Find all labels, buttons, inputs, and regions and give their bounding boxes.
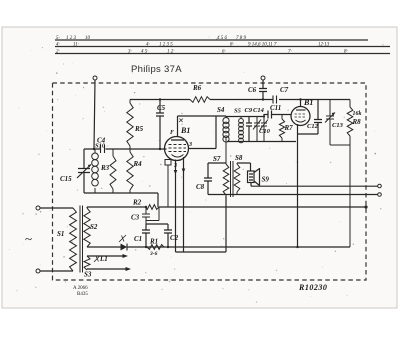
terminal mains 1 xyxy=(36,206,40,210)
resistor R2 xyxy=(145,205,159,210)
svg-text:C14: C14 xyxy=(253,107,265,114)
mains core xyxy=(80,206,83,273)
svg-text:3-6: 3-6 xyxy=(149,251,158,257)
svg-text:7 8 9: 7 8 9 xyxy=(236,36,247,41)
svg-text:R5: R5 xyxy=(134,125,144,133)
svg-text:C12: C12 xyxy=(307,123,319,130)
capacitor C8 xyxy=(204,163,212,195)
junction antenna-grid xyxy=(93,148,95,150)
capacitor C9 xyxy=(246,117,252,142)
wire tuned bottom xyxy=(84,193,158,207)
svg-text:S8: S8 xyxy=(235,154,243,162)
coil S8 secondary xyxy=(234,163,240,195)
svg-text:C8: C8 xyxy=(196,183,205,191)
svg-text:4 5·: 4 5· xyxy=(141,50,149,55)
svg-text:R6: R6 xyxy=(192,84,202,92)
svg-text:R1: R1 xyxy=(149,238,158,246)
resistor R7 xyxy=(279,115,284,142)
svg-text:S3: S3 xyxy=(84,271,92,279)
svg-text:3·: 3· xyxy=(128,50,132,55)
wire lamp line 1 xyxy=(87,255,123,257)
svg-text:1 2·: 1 2· xyxy=(167,50,175,55)
junction IF top xyxy=(263,115,265,117)
svg-text:C10: C10 xyxy=(259,128,271,135)
svg-text:S5: S5 xyxy=(234,108,242,115)
tube U2 cathode lead xyxy=(297,124,299,247)
svg-text:R10230: R10230 xyxy=(298,283,327,292)
wire mains top xyxy=(40,207,73,209)
tube U1 screen wire xyxy=(189,116,216,149)
cable run line 2 xyxy=(55,53,390,55)
svg-text:S10: S10 xyxy=(95,143,106,150)
wire IF bottom xyxy=(227,141,296,143)
tube U2 top lead xyxy=(300,100,302,108)
capacitor C2 xyxy=(164,230,172,247)
svg-text:11·: 11· xyxy=(73,43,79,48)
wire HT rail xyxy=(130,99,350,101)
svg-text:S9: S9 xyxy=(262,176,270,184)
junction C5-grid xyxy=(159,148,161,150)
tube U2 grids xyxy=(295,114,307,117)
tube U1 lead arrows xyxy=(174,169,186,175)
cable run line 4 xyxy=(55,46,390,48)
svg-text:C15: C15 xyxy=(60,175,72,183)
tube U2 cathode xyxy=(296,120,306,122)
capacitor C11 xyxy=(264,111,292,119)
svg-text:Philips 37A: Philips 37A xyxy=(131,64,182,75)
coil S3 heater xyxy=(84,256,90,270)
coil S10 xyxy=(92,149,99,193)
svg-text:C9: C9 xyxy=(245,107,253,114)
chassis dashed border xyxy=(53,83,367,280)
speaker S9 xyxy=(237,163,260,186)
wire mains bottom xyxy=(40,270,73,272)
junction rail-U2 xyxy=(299,98,301,100)
tube U2 plate xyxy=(296,109,306,111)
svg-text:R4: R4 xyxy=(133,160,143,168)
junction border dot xyxy=(364,205,367,208)
tube U1 cathode xyxy=(172,155,184,158)
tube U1 envelope xyxy=(165,137,189,161)
capacitor C5 xyxy=(156,100,164,150)
capacitor C12 xyxy=(298,100,323,135)
capacitor C13 trimmer xyxy=(325,100,350,146)
svg-text:3: 3 xyxy=(188,142,192,148)
svg-text:B1: B1 xyxy=(303,98,313,107)
wire output line xyxy=(251,185,378,187)
cable run numbers row 4 xyxy=(56,43,330,48)
svg-text:~: ~ xyxy=(25,231,32,246)
svg-text:R8: R8 xyxy=(352,118,362,126)
junction R2 left xyxy=(145,206,147,208)
svg-text:S4: S4 xyxy=(217,106,225,114)
terminal output 1 xyxy=(378,184,382,188)
svg-text:R3: R3 xyxy=(100,164,110,172)
svg-text:16k: 16k xyxy=(353,111,362,117)
junction S2 top xyxy=(86,207,88,208)
svg-text:C1: C1 xyxy=(134,235,142,243)
svg-text:8·: 8· xyxy=(344,50,348,55)
cable run line 5 xyxy=(55,39,368,41)
svg-text:A 2066: A 2066 xyxy=(73,286,88,291)
transformer core xyxy=(231,161,234,197)
svg-text:C2: C2 xyxy=(170,234,179,242)
tube U1 cathode leads xyxy=(176,157,184,252)
svg-text:1 2 3: 1 2 3 xyxy=(66,36,77,41)
svg-text:C6: C6 xyxy=(248,86,257,94)
coil S4 xyxy=(223,116,229,163)
svg-text:4 5 6: 4 5 6 xyxy=(217,36,228,41)
lamp L1 xyxy=(94,256,100,263)
capacitor C4 xyxy=(101,145,105,153)
svg-text:C11: C11 xyxy=(270,104,281,112)
svg-text:S2: S2 xyxy=(90,223,98,231)
terminal mains 2 xyxy=(36,269,40,273)
svg-text:10: 10 xyxy=(85,36,91,41)
resistor R8 xyxy=(347,100,353,248)
junction rail-C6 xyxy=(262,98,264,100)
svg-text:L1: L1 xyxy=(99,255,108,263)
svg-text:1 2 3 5: 1 2 3 5 xyxy=(159,43,173,48)
wire main rail 207 xyxy=(87,206,366,208)
svg-text:12·13: 12·13 xyxy=(318,43,330,48)
svg-text:9 14,6 10,11 7: 9 14,6 10,11 7 xyxy=(248,43,277,48)
resistor R3 xyxy=(110,149,116,193)
svg-text:3: 3 xyxy=(173,163,177,169)
tube U2 envelope xyxy=(291,107,310,126)
coil S2 secondary xyxy=(84,208,90,247)
svg-text:R2: R2 xyxy=(132,199,142,207)
rectifier diode xyxy=(121,244,128,251)
wire grid line xyxy=(84,148,167,150)
wire antenna down xyxy=(94,80,95,149)
wire S7 top xyxy=(208,162,226,164)
coil S7 primary xyxy=(223,163,229,252)
wire heater line xyxy=(176,196,227,252)
wire IF top xyxy=(226,116,264,118)
svg-text:5·: 5· xyxy=(56,36,60,41)
terminal output 2 xyxy=(378,193,382,197)
tube U1 bias box xyxy=(165,160,171,166)
svg-text:8·: 8· xyxy=(230,43,234,48)
capacitor C14 trimmer xyxy=(253,117,261,142)
junction C1 bottom xyxy=(145,246,147,248)
tube U1 grids xyxy=(169,145,187,152)
wire return line xyxy=(208,194,378,196)
cable run numbers row 5 xyxy=(56,36,247,41)
capacitor C6 xyxy=(259,80,267,100)
resistor R1 xyxy=(147,245,164,250)
junction C5-rail xyxy=(159,98,161,100)
svg-text:F: F xyxy=(170,130,174,136)
svg-text:2·: 2· xyxy=(56,50,60,55)
capacitor C7 xyxy=(273,96,277,104)
coil S1 primary xyxy=(70,208,77,271)
trimmer mark on plate wire xyxy=(179,119,183,123)
svg-text:C5: C5 xyxy=(157,104,166,112)
resistor R4 xyxy=(127,149,133,193)
resistor R5 xyxy=(127,100,133,150)
svg-text:C13: C13 xyxy=(332,122,344,129)
capacitor C15 variable xyxy=(77,149,91,193)
wire B minus line xyxy=(87,246,350,248)
svg-text:C3: C3 xyxy=(131,214,140,222)
tube U1 plate xyxy=(171,139,184,141)
wire block top xyxy=(146,224,168,230)
antenna terminal xyxy=(93,76,97,80)
svg-text:4·: 4· xyxy=(146,43,150,48)
tube U1 plate lead xyxy=(177,116,179,137)
svg-text:B435: B435 xyxy=(77,292,88,297)
svg-text:7·: 7· xyxy=(288,50,292,55)
svg-text:C7: C7 xyxy=(280,86,289,94)
svg-text:S7: S7 xyxy=(213,155,221,163)
terminal aerial 2 xyxy=(261,76,265,80)
svg-text:B1: B1 xyxy=(180,126,190,135)
svg-text:4·: 4· xyxy=(56,43,60,48)
capacitor C10 trimmer xyxy=(260,117,268,142)
cable run numbers row 2 xyxy=(56,50,348,55)
wire plate to S4 xyxy=(178,115,227,117)
resistor R6 xyxy=(190,97,210,103)
capacitor C1 xyxy=(142,230,150,247)
capacitor C3 xyxy=(142,207,159,224)
svg-text:6·: 6· xyxy=(222,50,226,55)
coil S5 xyxy=(239,117,244,143)
wire lamp line 2 xyxy=(87,268,126,270)
svg-text:R7: R7 xyxy=(284,124,294,132)
svg-text:S1: S1 xyxy=(57,230,64,238)
